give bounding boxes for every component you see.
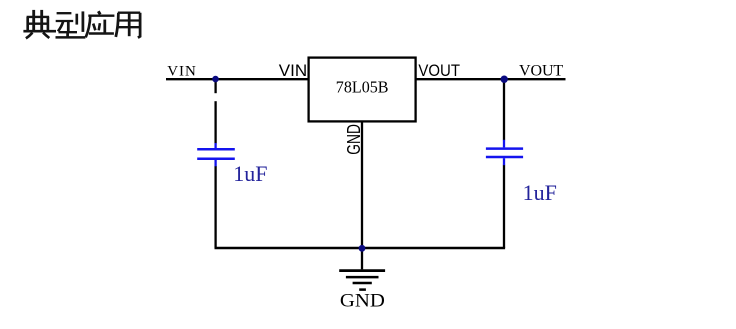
svg-text:VIN: VIN: [279, 61, 307, 80]
svg-text:1uF: 1uF: [233, 161, 267, 186]
svg-text:VOUT: VOUT: [519, 62, 563, 79]
svg-text:VIN: VIN: [167, 64, 196, 80]
svg-text:GND: GND: [340, 291, 385, 312]
svg-text:VOUT: VOUT: [418, 61, 460, 80]
svg-text:1uF: 1uF: [523, 180, 557, 205]
svg-text:GND: GND: [344, 124, 364, 155]
svg-text:78L05B: 78L05B: [336, 77, 389, 96]
